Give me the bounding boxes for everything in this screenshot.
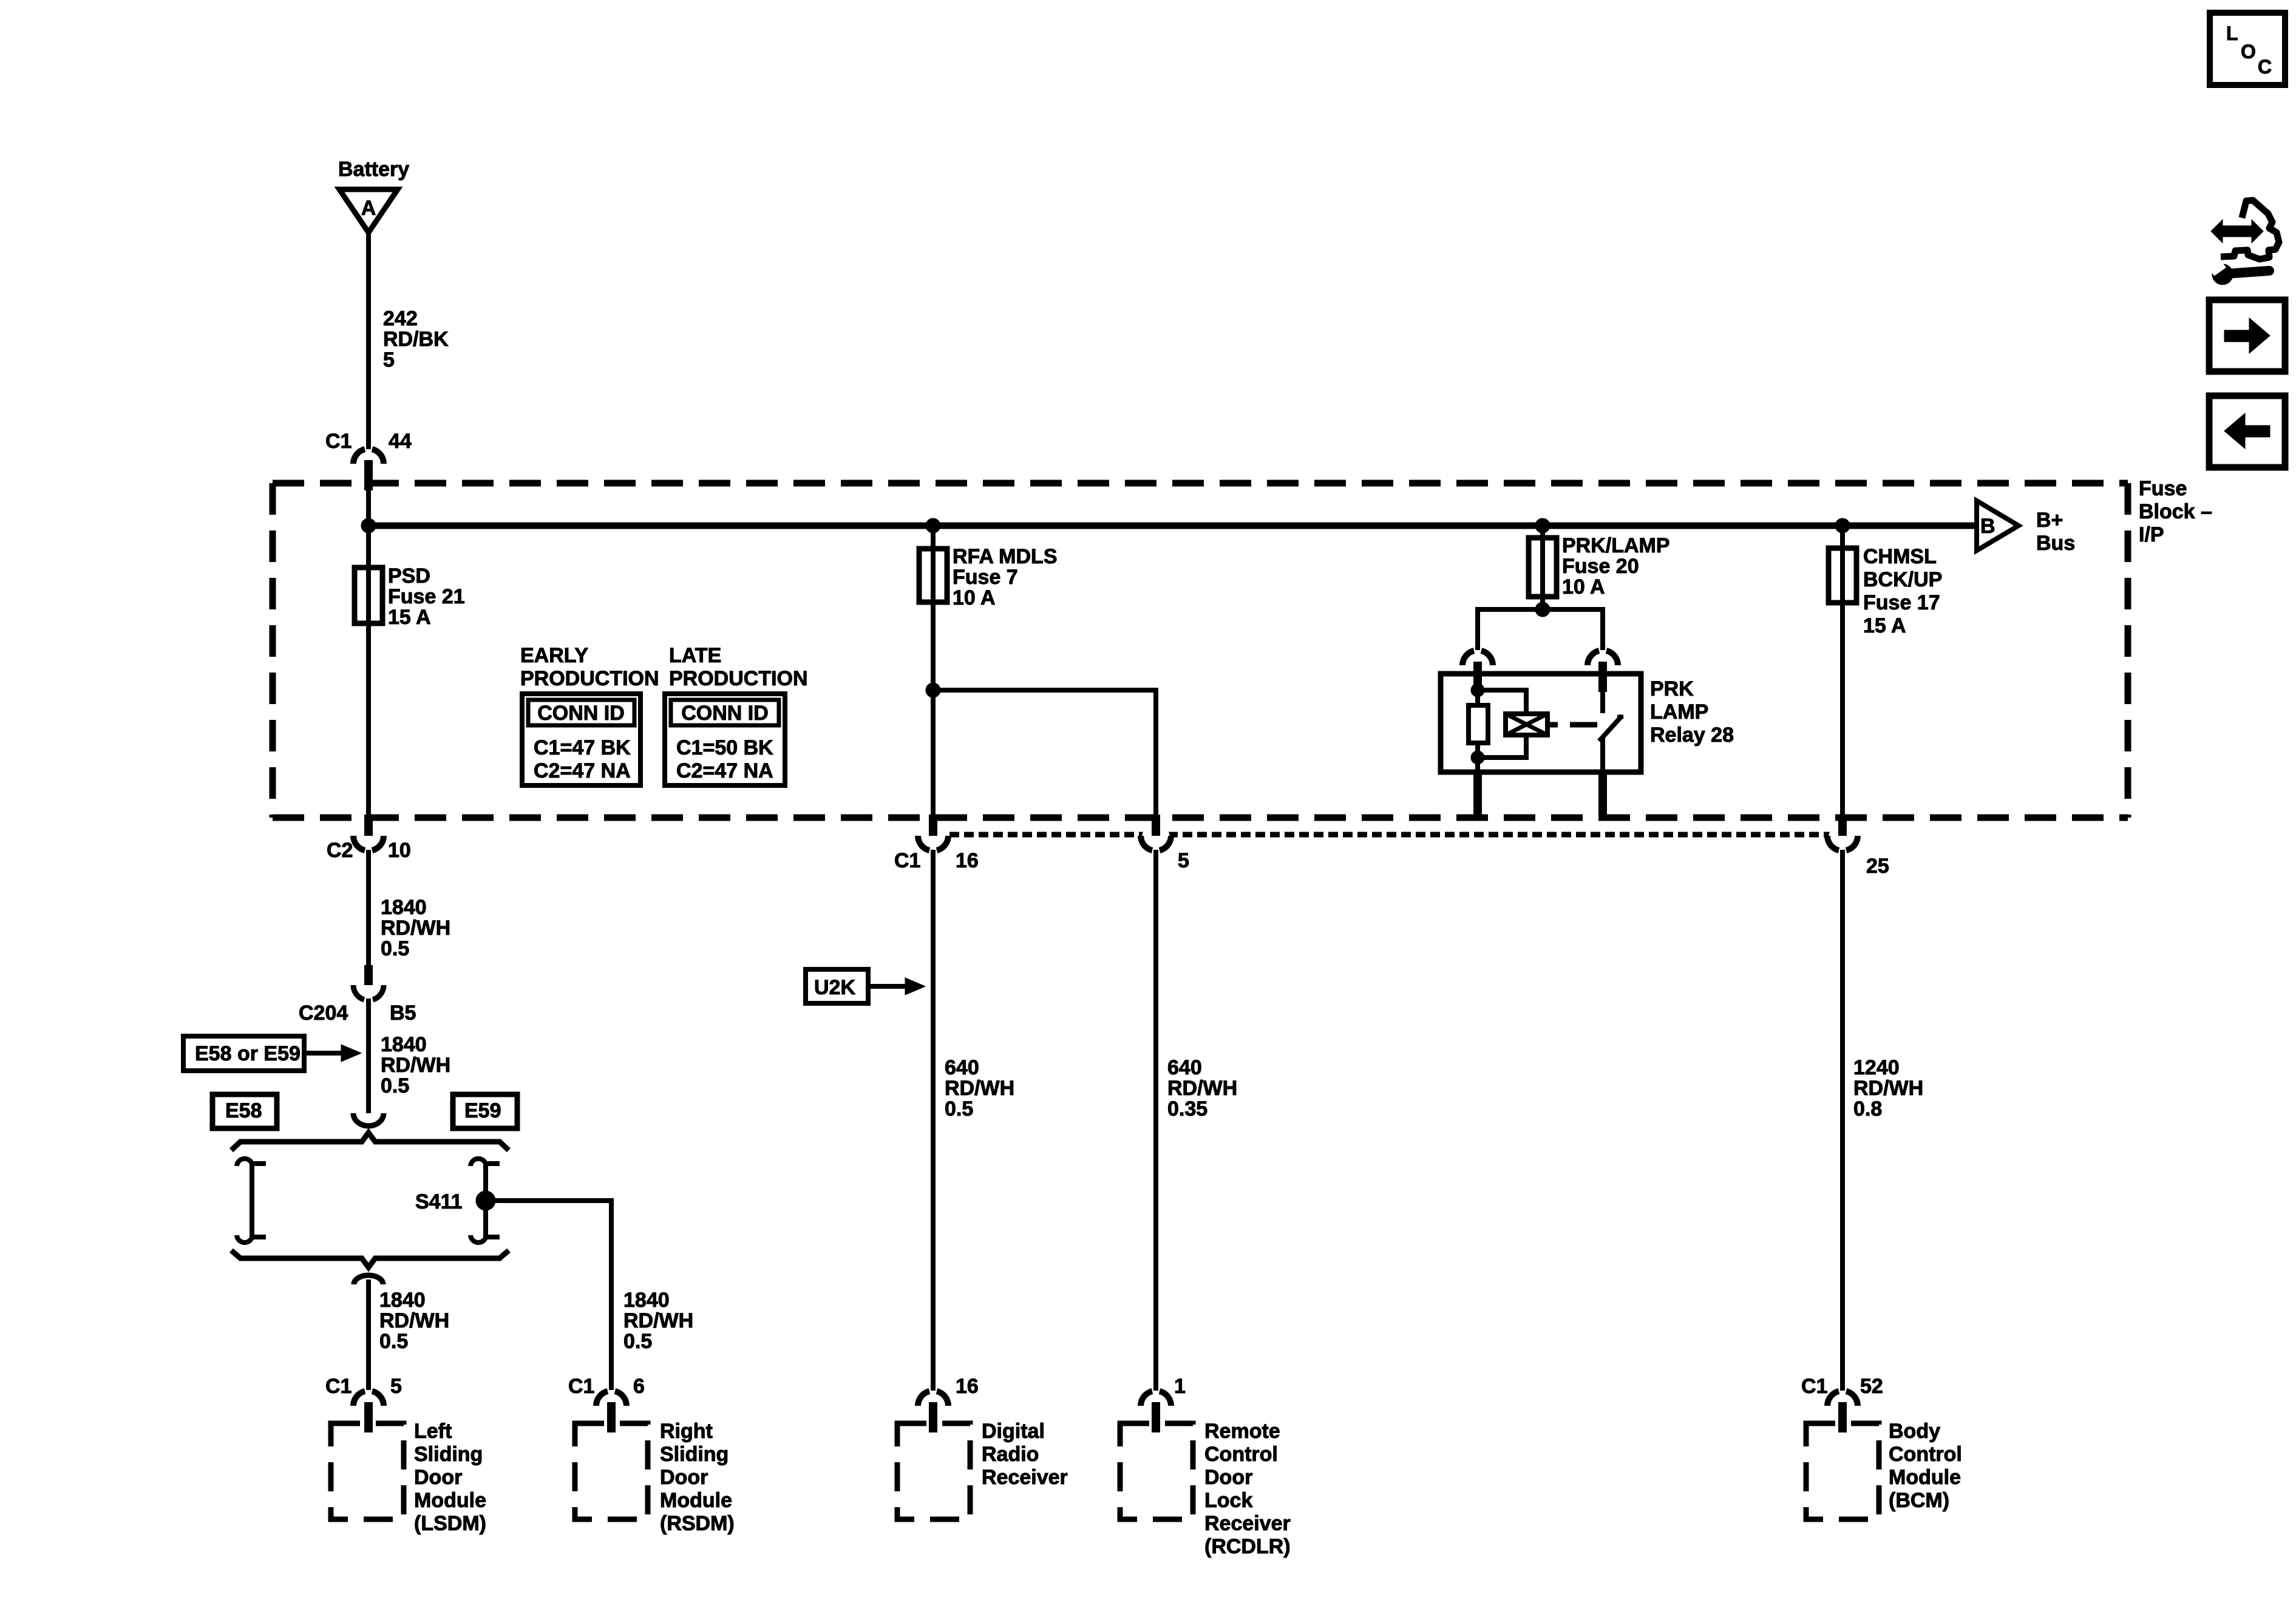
relay pin socket right: [1588, 651, 1599, 665]
svg-text:Fuse 21: Fuse 21: [388, 585, 465, 608]
svg-text:Door: Door: [660, 1466, 708, 1489]
svg-text:CHMSL: CHMSL: [1863, 545, 1937, 568]
svg-text:E58: E58: [225, 1099, 262, 1122]
connector E59 line: [470, 1159, 486, 1166]
svg-text:15 A: 15 A: [388, 606, 431, 629]
battery symbol A: [339, 189, 398, 232]
svg-text:Module: Module: [660, 1489, 732, 1512]
svg-text:B: B: [1980, 515, 1995, 538]
svg-text:Battery: Battery: [338, 158, 409, 181]
fuse PRK/LAMP Fuse 20: [1529, 538, 1557, 597]
svg-text:C1: C1: [568, 1375, 594, 1398]
svg-text:Digital: Digital: [982, 1420, 1045, 1443]
svg-text:Remote: Remote: [1204, 1420, 1280, 1443]
wire RFA fuse column: [931, 526, 936, 816]
half connector below brace: [354, 1275, 383, 1284]
svg-text:RD/WH: RD/WH: [381, 917, 450, 940]
E58 label box: [212, 1094, 277, 1128]
svg-text:Control: Control: [1889, 1443, 1962, 1466]
svg-text:RD/WH: RD/WH: [945, 1077, 1014, 1100]
svg-text:0.5: 0.5: [381, 1074, 409, 1097]
fuse CHMSL BCK/UP Fuse 17: [1829, 548, 1856, 603]
svg-text:O: O: [2241, 41, 2256, 63]
svg-text:(LSDM): (LSDM): [414, 1512, 486, 1535]
body repair icon (double arrow, outline, wrench): [2211, 220, 2263, 243]
svg-text:PRODUCTION: PRODUCTION: [520, 667, 659, 690]
svg-text:C2: C2: [327, 839, 353, 862]
svg-text:B+: B+: [2036, 509, 2063, 532]
wire split to relay pins: [1478, 609, 1603, 650]
svg-text:0.8: 0.8: [1853, 1097, 1882, 1120]
junction node bus/PRK: [1535, 518, 1550, 533]
svg-text:Block –: Block –: [2139, 500, 2212, 523]
svg-text:6: 6: [633, 1375, 645, 1398]
svg-text:Relay 28: Relay 28: [1650, 724, 1734, 747]
wire end half connector above brace: [353, 1113, 384, 1126]
dotted harness line: [935, 832, 1843, 838]
svg-text:B5: B5: [390, 1002, 416, 1025]
svg-text:RD/WH: RD/WH: [1853, 1077, 1923, 1100]
fuse PSD Fuse 21: [355, 568, 382, 623]
Fuse Block - I/P dashed boundary box: [273, 483, 2128, 818]
wire brace to LSDM: [366, 1280, 371, 1390]
U2K callout box: [806, 969, 868, 1003]
svg-text:Receiver: Receiver: [982, 1466, 1068, 1489]
svg-text:C2=47 NA: C2=47 NA: [676, 759, 773, 782]
svg-text:Fuse 17: Fuse 17: [1863, 591, 1940, 614]
svg-text:C1: C1: [894, 849, 920, 872]
junction node relay bottom: [1471, 751, 1484, 764]
junction node bus/battery: [361, 518, 376, 533]
svg-text:L: L: [2226, 22, 2238, 44]
svg-text:16: 16: [956, 849, 979, 872]
lower harness brace: [231, 1250, 509, 1267]
svg-text:CONN ID: CONN ID: [681, 702, 769, 725]
relay resistor: [1469, 705, 1488, 743]
relay PRK LAMP Relay 28 box: [1441, 674, 1641, 772]
connector pin 25 out of fuse block: [1829, 824, 1856, 852]
svg-text:0.5: 0.5: [945, 1097, 973, 1120]
backward page arrow box: [2209, 396, 2285, 467]
relay coil actuating dashed link: [1547, 722, 1558, 728]
svg-text:Door: Door: [414, 1466, 462, 1489]
connector pin 5 out of fuse block: [1142, 824, 1170, 852]
svg-text:RD/WH: RD/WH: [1167, 1077, 1237, 1100]
junction node bus/CHMSL: [1835, 518, 1850, 533]
svg-text:C1=47 BK: C1=47 BK: [534, 736, 631, 759]
svg-text:Fuse 7: Fuse 7: [953, 566, 1018, 589]
svg-text:Door: Door: [1204, 1466, 1252, 1489]
svg-text:LATE: LATE: [669, 644, 721, 667]
svg-text:Left: Left: [414, 1420, 452, 1443]
connector C2 10 out of fuse block: [355, 824, 382, 852]
svg-text:Receiver: Receiver: [1204, 1512, 1291, 1535]
connector E58 line: [237, 1159, 252, 1166]
svg-text:EARLY: EARLY: [520, 644, 588, 667]
svg-text:Control: Control: [1204, 1443, 1278, 1466]
svg-text:RFA MDLS: RFA MDLS: [953, 545, 1058, 568]
svg-text:Sliding: Sliding: [414, 1443, 483, 1466]
svg-text:5: 5: [390, 1375, 402, 1398]
svg-text:1840: 1840: [379, 1289, 426, 1312]
wire inside fuse block to PSD fuse: [366, 489, 371, 816]
CONN ID table early: [522, 694, 640, 785]
relay coil loop wiring: [1478, 690, 1526, 714]
svg-text:Module: Module: [1889, 1466, 1961, 1489]
svg-text:I/P: I/P: [2139, 523, 2164, 546]
svg-text:RD/WH: RD/WH: [381, 1054, 450, 1077]
junction node RFA branch: [926, 683, 940, 697]
relay switch blade: [1599, 716, 1622, 741]
LOC reference box: [2210, 13, 2285, 85]
connector C1 16 out of fuse block: [919, 824, 947, 852]
svg-text:1240: 1240: [1853, 1056, 1900, 1079]
svg-text:PRK/LAMP: PRK/LAMP: [1562, 534, 1670, 557]
svg-text:0.35: 0.35: [1167, 1097, 1207, 1120]
svg-text:RD/WH: RD/WH: [379, 1309, 449, 1332]
relay switch fixed contact: [1600, 674, 1605, 713]
fuse RFA MDLS Fuse 7: [919, 549, 947, 602]
relay switch lower contact: [1600, 738, 1605, 772]
svg-text:E59: E59: [464, 1099, 501, 1122]
svg-text:5: 5: [383, 348, 395, 371]
wire branch to pin 5 column: [933, 690, 1156, 816]
svg-text:E58 or E59: E58 or E59: [195, 1042, 301, 1065]
svg-text:C204: C204: [299, 1002, 348, 1025]
relay pin socket left: [1462, 651, 1474, 665]
connector C1 44 into fuse block: [353, 449, 365, 464]
wire S411 to RSDM column: [486, 1201, 611, 1390]
svg-text:16: 16: [956, 1375, 979, 1398]
svg-text:C1: C1: [1801, 1375, 1827, 1398]
arrow from callout to wire: [304, 1051, 341, 1056]
svg-text:Body: Body: [1889, 1420, 1940, 1443]
svg-text:BCK/UP: BCK/UP: [1863, 568, 1942, 591]
svg-text:640: 640: [1167, 1056, 1202, 1079]
svg-text:44: 44: [389, 430, 412, 453]
svg-text:1840: 1840: [381, 1033, 427, 1056]
wire PRK fuse column: [1540, 526, 1545, 609]
svg-text:C1=50 BK: C1=50 BK: [676, 736, 773, 759]
wire RFA to Digital Radio Receiver: [931, 850, 936, 1391]
svg-text:(RCDLR): (RCDLR): [1204, 1535, 1291, 1558]
svg-text:CONN ID: CONN ID: [537, 702, 625, 725]
E58 or E59 callout box: [183, 1036, 304, 1071]
svg-text:Right: Right: [660, 1420, 713, 1443]
svg-text:5: 5: [1178, 849, 1189, 872]
svg-text:15 A: 15 A: [1863, 614, 1906, 637]
svg-text:52: 52: [1860, 1375, 1883, 1398]
svg-text:C: C: [2258, 56, 2272, 78]
svg-text:RD/BK: RD/BK: [383, 328, 449, 351]
svg-text:Sliding: Sliding: [660, 1443, 729, 1466]
svg-text:PRK: PRK: [1650, 677, 1694, 700]
svg-text:(BCM): (BCM): [1889, 1489, 1949, 1512]
svg-text:Lock: Lock: [1204, 1489, 1252, 1512]
relay coil feed wire: [1475, 674, 1480, 705]
relay coil box with X: [1506, 714, 1547, 735]
svg-text:C1: C1: [325, 430, 352, 453]
wire C2 to C204: [366, 850, 371, 968]
relay resistor lower wire: [1475, 743, 1480, 772]
svg-text:Fuse 20: Fuse 20: [1562, 555, 1639, 578]
svg-text:PRODUCTION: PRODUCTION: [669, 667, 808, 690]
svg-text:(RSDM): (RSDM): [660, 1512, 735, 1535]
svg-text:U2K: U2K: [814, 976, 855, 999]
CONN ID table late: [665, 694, 785, 785]
junction node bus/RFA: [926, 518, 940, 533]
E59 label box: [453, 1094, 517, 1128]
svg-text:Fuse: Fuse: [2139, 477, 2187, 500]
svg-text:640: 640: [945, 1056, 979, 1079]
svg-text:C2=47 NA: C2=47 NA: [534, 759, 631, 782]
upper harness brace: [231, 1133, 509, 1150]
relay output stub right: [1598, 772, 1607, 815]
svg-text:A: A: [361, 197, 376, 220]
B+ bus wire: [369, 523, 1974, 529]
svg-text:0.5: 0.5: [379, 1330, 408, 1353]
svg-text:10: 10: [388, 839, 411, 862]
svg-text:1840: 1840: [381, 896, 427, 919]
svg-text:C1: C1: [325, 1375, 352, 1398]
junction node relay top: [1471, 683, 1484, 697]
svg-text:S411: S411: [415, 1190, 463, 1213]
junction node below fuse 20: [1535, 602, 1550, 617]
svg-text:25: 25: [1866, 855, 1889, 878]
svg-text:1: 1: [1174, 1375, 1186, 1398]
svg-text:LAMP: LAMP: [1650, 700, 1708, 724]
wire CHMSL pin25 to BCM: [1840, 850, 1845, 1391]
wire pin5 branch to RCDLR: [1153, 850, 1158, 1391]
svg-text:10 A: 10 A: [1562, 575, 1605, 598]
splice S411: [476, 1191, 495, 1210]
svg-text:PSD: PSD: [388, 564, 430, 588]
forward page arrow box: [2209, 300, 2285, 371]
wire C204 to E58/E59 split: [366, 998, 371, 1113]
svg-text:Bus: Bus: [2036, 532, 2075, 555]
wire battery to fuse block: [366, 232, 371, 449]
svg-text:1840: 1840: [623, 1289, 670, 1312]
svg-text:242: 242: [383, 307, 418, 330]
svg-text:Module: Module: [414, 1489, 486, 1512]
relay output stub left: [1473, 772, 1482, 815]
svg-text:10 A: 10 A: [953, 586, 996, 609]
svg-text:RD/WH: RD/WH: [623, 1309, 693, 1332]
arrow from U2K to wire: [868, 984, 905, 989]
svg-text:Radio: Radio: [982, 1443, 1039, 1466]
svg-text:0.5: 0.5: [623, 1330, 652, 1353]
B+ bus page connector triangle B: [1977, 501, 2019, 551]
svg-text:0.5: 0.5: [381, 937, 409, 960]
wire CHMSL fuse column: [1840, 526, 1845, 816]
connector C204 B5: [364, 965, 373, 985]
